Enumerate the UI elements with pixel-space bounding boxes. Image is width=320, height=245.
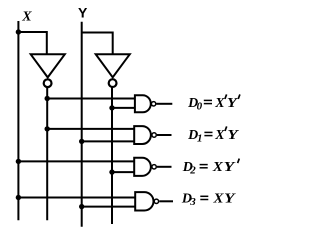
nand gate G1 [135, 95, 172, 112]
nand gate G2 [134, 126, 171, 144]
wire X' to gate G1 input A [47, 98, 135, 100]
wire Y vertical bus [81, 22, 83, 227]
wire X vertical bus [17, 21, 19, 220]
junction Y to gate G4 [79, 204, 84, 209]
wire Y' vertical bus [111, 88, 113, 225]
nand gate G4 [135, 192, 173, 210]
junction X to gate G4 [16, 195, 21, 200]
output label D3 = XY [181, 192, 236, 208]
output label D2 = XY' [182, 159, 240, 177]
junction X to gate G3 [16, 159, 21, 164]
svg-text:D1XY: D1XY [187, 128, 239, 145]
junction X' to gate G2 [45, 126, 50, 131]
inverter U2 (Y') [96, 54, 130, 87]
svg-text:Y: Y [78, 4, 88, 20]
wire X' vertical bus [46, 88, 48, 221]
wire X' to gate G2 input A [47, 128, 134, 130]
wire X to inverter U1 input [18, 32, 46, 54]
svg-text:X: X [21, 10, 32, 25]
junction X to inverter U1 [16, 29, 21, 34]
junction Y to gate G2 [79, 139, 84, 144]
wire X to gate G3 input A [18, 160, 134, 162]
svg-text:D2XY: D2XY [182, 160, 236, 176]
wire Y to gate G2 input B [82, 140, 135, 142]
svg-text:D0XY: D0XY [187, 96, 238, 113]
output label D1 = X'Y [187, 126, 239, 144]
svg-text:D3XY: D3XY [181, 192, 236, 208]
wire Y to gate G4 input B [82, 206, 136, 208]
output label D0 = X'Y' [187, 94, 240, 112]
wire Y' to gate G1 input B [112, 107, 135, 109]
junction Y' to gate G3 [109, 169, 114, 174]
junction X' to gate G1 [45, 96, 50, 101]
wire X to gate G4 input A [18, 197, 135, 199]
inverter U1 (X') [31, 54, 65, 87]
wire Y to inverter U2 input [82, 33, 113, 55]
junction Y' to gate G1 [109, 105, 114, 110]
wire Y' to gate G3 input B [112, 171, 134, 173]
nand gate G3 [134, 158, 171, 176]
